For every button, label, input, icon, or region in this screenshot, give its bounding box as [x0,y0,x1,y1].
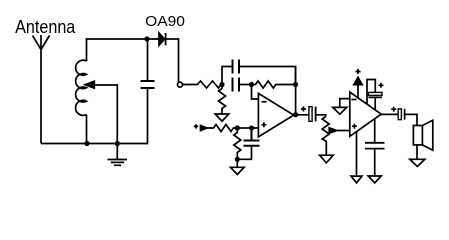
svg-text:Antenna: Antenna [15,17,76,37]
svg-text:OA90: OA90 [145,14,185,30]
